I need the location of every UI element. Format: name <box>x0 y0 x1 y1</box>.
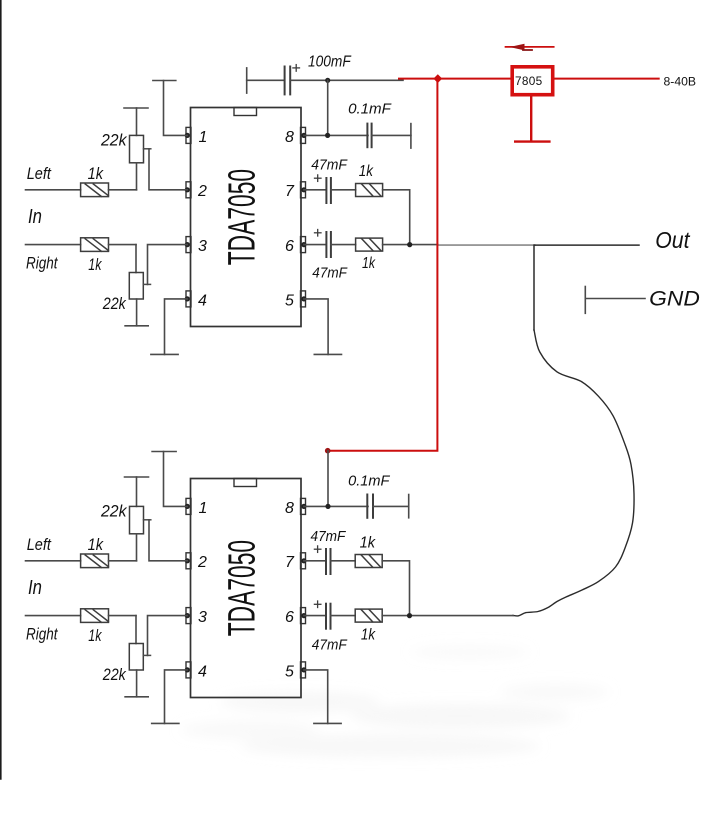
wire R7 bottom to pin2 net <box>136 534 138 561</box>
svg-text:0.1mF: 0.1mF <box>348 101 392 118</box>
U1 pin 3 <box>185 237 191 253</box>
svg-text:Right: Right <box>26 255 59 273</box>
R1 tap bar <box>144 148 151 150</box>
svg-text:100mF: 100mF <box>308 54 352 71</box>
wire C4 to R6 <box>331 244 356 246</box>
ground bar pin5 <box>314 353 341 355</box>
svg-text:4: 4 <box>198 663 207 680</box>
op-amp U2 TDA7050 body <box>191 479 302 698</box>
rail bar above 22k R1 <box>124 107 148 109</box>
ground bar below R10 <box>125 696 148 698</box>
svg-text:Out: Out <box>655 227 691 253</box>
wire Out tee down <box>533 245 535 330</box>
svg-text:Right: Right <box>26 626 59 644</box>
R4 tap bar <box>143 283 150 285</box>
svg-text:5: 5 <box>285 292 294 309</box>
wire Right input lower <box>26 615 81 617</box>
svg-text:8: 8 <box>285 500 294 517</box>
resistor R3 1k <box>81 238 109 252</box>
svg-text:Left: Left <box>27 165 52 183</box>
wire pin4 to ground <box>165 299 188 355</box>
wire R11 to lower out node <box>382 561 409 616</box>
svg-text:2: 2 <box>197 554 207 571</box>
U2 pin 7 <box>301 553 307 569</box>
wire R10 bottom to ground <box>136 670 138 697</box>
svg-text:1k: 1k <box>361 626 376 643</box>
regulator ground wire <box>530 97 532 141</box>
resistor R5 1k <box>356 184 383 197</box>
wire C2 right <box>372 134 411 136</box>
resistor R10 22k <box>129 644 143 671</box>
arrow above regulator <box>506 46 554 48</box>
red wire down to lower circuit <box>328 79 438 451</box>
svg-text:47mF: 47mF <box>311 157 347 174</box>
wire R2 to 22k node <box>109 189 137 191</box>
wire Left input lower <box>26 560 81 562</box>
wire supply node down to pin8 <box>327 80 329 135</box>
C3 plus sign <box>315 175 322 182</box>
wire R12 to loop end <box>382 615 513 617</box>
resistor R7 22k <box>130 506 144 533</box>
wire C6 to R11 <box>331 560 356 562</box>
junction lower out node <box>407 613 412 618</box>
capacitor C1 100mF left terminal bar <box>246 68 248 93</box>
svg-text:6: 6 <box>285 238 294 255</box>
wire Out tee to Out label <box>535 244 639 246</box>
wire Left input <box>26 189 81 191</box>
ground bar U2 pin4 <box>152 722 179 724</box>
svg-text:1k: 1k <box>88 256 102 274</box>
red junction dot lower <box>325 448 331 454</box>
regulator U3 7805 box <box>512 67 553 95</box>
wire U2 pin4 to ground <box>165 670 188 724</box>
wire rail to R7 <box>136 477 138 506</box>
svg-text:6: 6 <box>285 609 294 626</box>
wire Right input <box>26 244 81 246</box>
wire U2 pin7 to C6 <box>304 560 326 562</box>
U2 pin 5 <box>301 662 307 678</box>
wire U2 pin1 to rail <box>164 452 188 507</box>
rail bar above pin1 <box>153 80 176 82</box>
svg-text:22k: 22k <box>100 502 128 521</box>
wire C5 right <box>373 505 409 507</box>
op-amp U1 TDA7050 body <box>191 108 302 327</box>
wire supply node down to U2 pin8 <box>327 451 329 507</box>
red supply wire horizontal <box>399 78 510 80</box>
svg-text:8-40В: 8-40В <box>664 75 697 89</box>
GND terminal bar <box>584 287 586 314</box>
ground bar pin4 <box>151 353 178 355</box>
wire C1 to supply node <box>291 79 403 81</box>
svg-text:GND: GND <box>649 287 700 311</box>
wire R3 to 22k node <box>109 244 137 246</box>
svg-text:1k: 1k <box>88 165 104 183</box>
svg-text:47mF: 47mF <box>312 637 348 654</box>
svg-text:7805: 7805 <box>515 74 543 88</box>
U2 pin 3 <box>185 608 191 624</box>
U2 pin 8 <box>301 498 307 514</box>
regulator ground bar <box>515 140 549 142</box>
wire R5 to out node <box>383 190 410 245</box>
svg-text:1: 1 <box>199 500 208 517</box>
svg-text:1: 1 <box>199 129 208 146</box>
wire U2 pin8 to C5 <box>304 505 368 507</box>
wire R1 tap to pin2 <box>149 149 187 190</box>
U1 pin 6 <box>301 237 307 253</box>
wire R1 bottom to pin2 net <box>136 163 138 190</box>
svg-text:47mF: 47mF <box>311 528 347 545</box>
svg-text:7: 7 <box>285 183 295 200</box>
wire 22k R4 top <box>135 245 137 273</box>
U1 pin 1 <box>185 127 191 143</box>
wire R7 tap to pin2 <box>149 520 187 561</box>
resistor R8 1k <box>81 554 109 568</box>
svg-text:22k: 22k <box>102 665 127 684</box>
C2 right terminal bar <box>410 124 412 149</box>
U2 pin 2 <box>185 553 191 569</box>
wire U2 pin6 to C7 <box>304 615 326 617</box>
C7 plus sign <box>314 601 321 608</box>
U1 pin 7 <box>301 182 307 198</box>
junction U2 pin8 node <box>325 504 330 509</box>
svg-text:Left: Left <box>27 536 52 554</box>
wire pin7 to C3 <box>304 189 326 191</box>
svg-text:47mF: 47mF <box>312 265 347 282</box>
ground bar below R4 <box>125 325 148 327</box>
U2 pin 4 <box>185 662 191 678</box>
svg-text:4: 4 <box>198 292 207 309</box>
svg-text:1k: 1k <box>88 536 104 554</box>
C6 plus sign <box>314 546 321 553</box>
svg-text:22k: 22k <box>100 131 128 150</box>
U1 top notch <box>234 108 257 116</box>
capacitor C7 47mF plates <box>326 604 331 629</box>
C4 plus sign <box>315 230 322 237</box>
wire pin5 to ground <box>304 299 328 355</box>
C1 plus sign <box>293 65 300 72</box>
svg-text:3: 3 <box>198 238 207 255</box>
capacitor C4 47mF plates <box>326 232 331 257</box>
R7 tap bar <box>144 519 151 521</box>
svg-text:5: 5 <box>285 663 294 680</box>
svg-text:1k: 1k <box>362 255 376 272</box>
svg-text:TDA7050: TDA7050 <box>219 169 263 265</box>
wire out node to Out tee (gray) <box>438 244 535 246</box>
U1 pin 8 <box>301 127 307 143</box>
U2 pin 1 <box>185 498 191 514</box>
svg-text:2: 2 <box>197 183 207 200</box>
left border line <box>0 0 2 779</box>
U2 top notch <box>234 479 257 487</box>
capacitor C1 plates <box>285 67 291 95</box>
wire rail to R1 <box>136 108 138 135</box>
svg-text:1k: 1k <box>359 163 374 180</box>
capacitor C2 0.1mF plates <box>367 124 371 148</box>
U1 pin 2 <box>185 182 191 198</box>
svg-text:0.1mF: 0.1mF <box>348 472 390 489</box>
resistor R12 1k <box>355 609 382 622</box>
resistor R6 1k <box>356 238 383 251</box>
capacitor C5 0.1mF plates <box>367 495 373 518</box>
wire R9 to 22k node <box>109 615 137 617</box>
junction out node <box>407 242 412 247</box>
U1 pin 5 <box>301 291 307 307</box>
capacitor C6 47mF plates <box>326 549 331 574</box>
C5 right terminal bar <box>408 495 410 518</box>
freehand loop wire Out to lower output <box>513 330 634 616</box>
resistor R2 1k <box>81 183 109 197</box>
wire U2 pin5 to ground <box>304 670 328 724</box>
svg-text:1k: 1k <box>360 535 376 552</box>
wire R8 to 22k node <box>109 560 137 562</box>
R10 tap bar <box>143 654 150 656</box>
svg-text:TDA7050: TDA7050 <box>219 540 263 636</box>
svg-text:1k: 1k <box>88 627 102 645</box>
resistor R4 22k <box>129 273 143 300</box>
svg-text:22k: 22k <box>102 294 127 313</box>
rail bar above U2 pin1 <box>152 451 176 453</box>
wire C7 to R12 <box>331 615 356 617</box>
U1 pin 4 <box>185 291 191 307</box>
resistor R1 22k <box>130 135 144 162</box>
U2 pin 6 <box>301 608 307 624</box>
junction supply node <box>325 78 330 83</box>
wire R4 bottom to ground <box>136 299 138 326</box>
wire C1 left <box>247 79 284 81</box>
wire R4 tap to pin3 <box>148 245 188 285</box>
background scan smudges <box>180 645 610 757</box>
svg-text:In: In <box>28 577 42 599</box>
red junction diamond <box>433 74 442 83</box>
wire R6 to red crossing <box>383 244 438 246</box>
wire pin1 to rail <box>164 81 188 136</box>
svg-text:7: 7 <box>285 554 295 571</box>
svg-text:3: 3 <box>198 609 207 626</box>
wire pin6 to C4 <box>304 244 326 246</box>
ground bar U2 pin5 <box>314 722 341 724</box>
wire 22k R10 top <box>135 616 137 644</box>
junction pin8 node <box>325 133 330 138</box>
svg-text:In: In <box>28 206 42 228</box>
wire R10 tap to pin3 <box>148 616 188 656</box>
wire pin8 to C2 <box>304 134 368 136</box>
rail bar above 22k R7 <box>125 476 149 478</box>
GND wire <box>585 298 645 300</box>
resistor R9 1k <box>81 609 109 623</box>
svg-text:8: 8 <box>285 129 294 146</box>
capacitor C3 47mF plates <box>326 178 331 203</box>
resistor R11 1k <box>355 555 382 568</box>
wire C3 to R5 <box>331 189 356 191</box>
